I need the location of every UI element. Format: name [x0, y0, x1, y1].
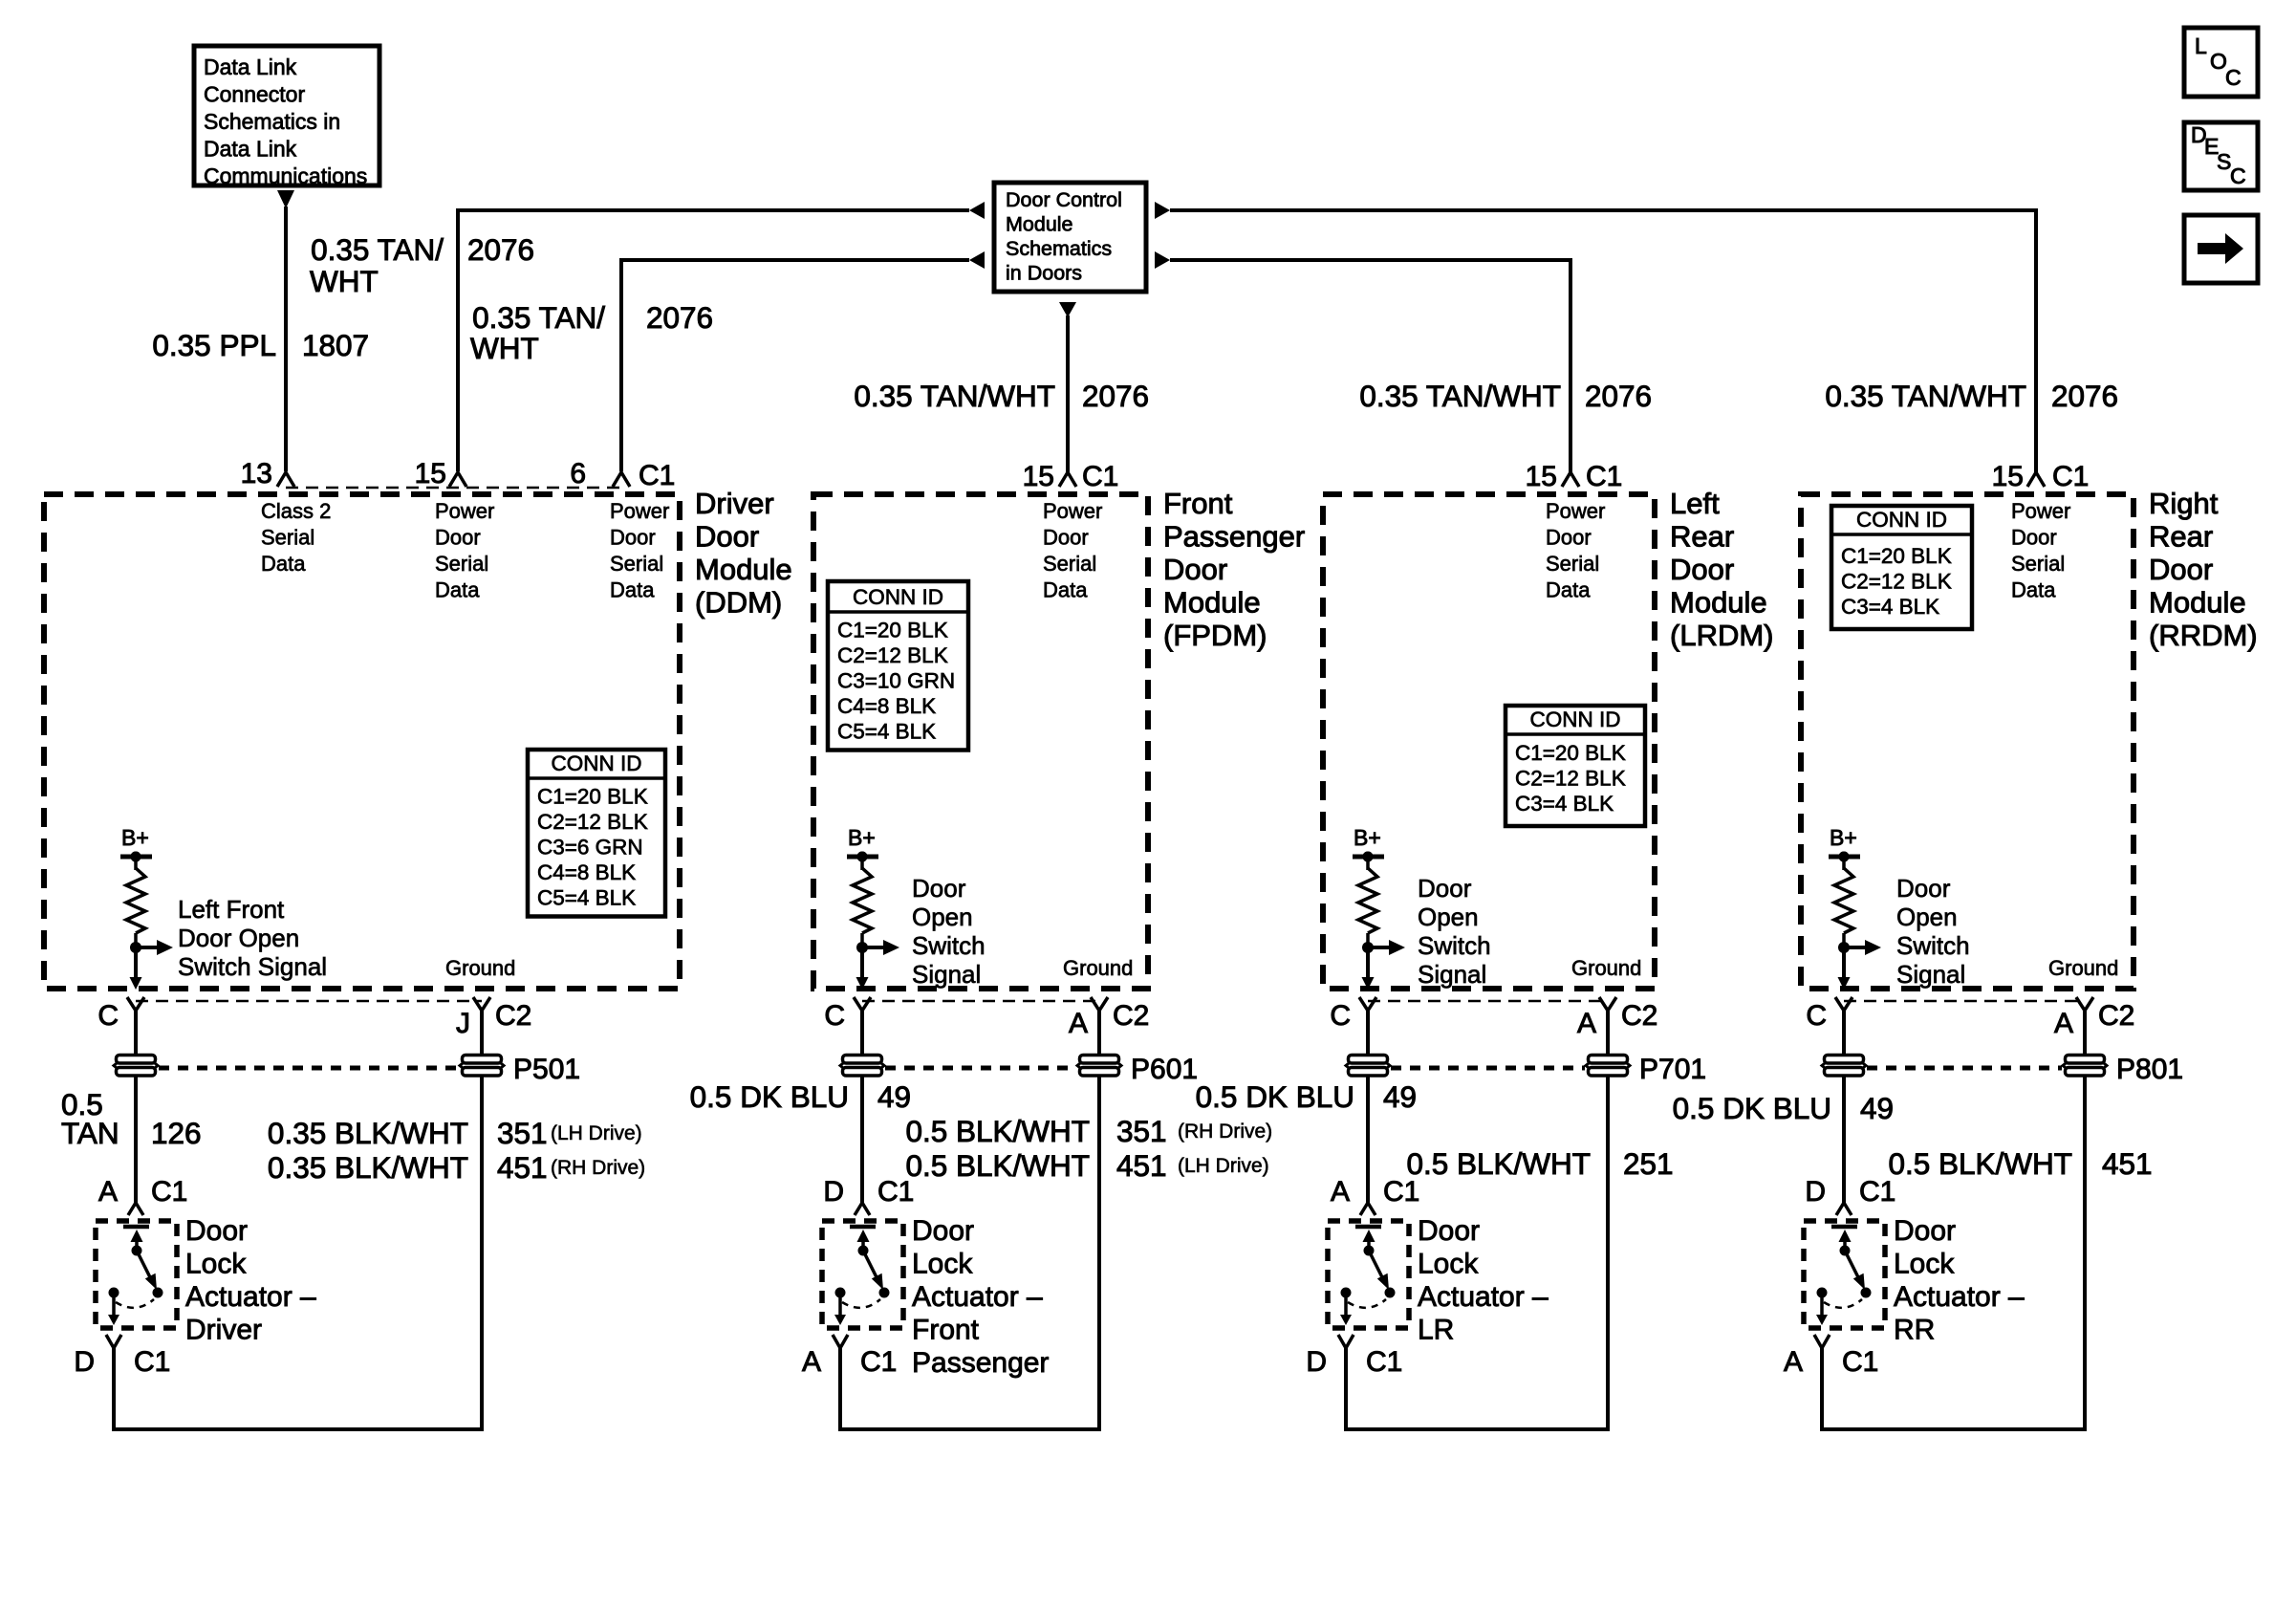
svg-text:Signal: Signal — [1896, 960, 1965, 989]
svg-text:A: A — [98, 1176, 118, 1208]
svg-text:Module: Module — [1163, 586, 1261, 620]
svg-text:WHT: WHT — [470, 331, 539, 365]
svg-text:C1: C1 — [1082, 461, 1118, 492]
svg-text:A: A — [802, 1346, 821, 1378]
svg-text:C5=4 BLK: C5=4 BLK — [537, 886, 636, 910]
connector P801 dashed line — [1867, 1066, 2062, 1071]
svg-text:Module: Module — [1670, 586, 1767, 620]
pin 15 C1 of FPDM — [1023, 461, 1119, 492]
svg-text:0.5 DK BLU: 0.5 DK BLU — [1196, 1079, 1354, 1114]
svg-text:Door: Door — [695, 520, 759, 554]
connector C1 dashed line across DDM top pins — [286, 487, 621, 490]
label P501 — [513, 1054, 580, 1085]
svg-text:C5=4 BLK: C5=4 BLK — [837, 720, 936, 744]
svg-text:Module: Module — [695, 553, 792, 586]
arrow out of DCM box right lower — [1155, 251, 1170, 269]
pin C C2 of DDM (door open switch signal) — [97, 997, 144, 1032]
svg-text:Ground: Ground — [1063, 956, 1133, 980]
power node B+ in DDM — [120, 825, 152, 862]
svg-text:Serial: Serial — [610, 552, 663, 576]
svg-text:0.5 BLK/WHT: 0.5 BLK/WHT — [1406, 1146, 1591, 1181]
svg-text:B+: B+ — [1354, 825, 1381, 850]
svg-text:0.5 DK BLU: 0.5 DK BLU — [690, 1079, 849, 1114]
svg-text:C: C — [97, 1000, 119, 1032]
wire serial data DCM box to FPDM pin 15 — [1066, 316, 1070, 472]
svg-text:49: 49 — [1860, 1091, 1894, 1125]
module RRDM dashed outline — [1801, 494, 2134, 989]
svg-text:Switch Signal: Switch Signal — [178, 952, 327, 981]
svg-text:Lock: Lock — [912, 1249, 973, 1280]
label 0.5 BLK/WHT 251 (LRDM ground) — [1406, 1146, 1673, 1181]
CONN ID table LRDM — [1505, 706, 1645, 826]
svg-text:C3=4 BLK: C3=4 BLK — [1515, 792, 1614, 816]
svg-text:(RH Drive): (RH Drive) — [551, 1157, 645, 1179]
node door open switch signal junction in DDM — [130, 940, 174, 990]
grommet P801 left — [1822, 1056, 1866, 1077]
svg-text:C2: C2 — [495, 1000, 531, 1032]
svg-text:Serial: Serial — [2011, 552, 2065, 576]
svg-text:J: J — [456, 1008, 470, 1039]
wire LRDM ground pin to actuator return — [1346, 1011, 1608, 1429]
svg-text:Serial: Serial — [1043, 552, 1096, 576]
door lock actuator switch RRDM — [1804, 1221, 1885, 1328]
label 0.5 DK BLU 49 (RRDM lock wire) — [1673, 1091, 1894, 1125]
svg-text:Connector: Connector — [204, 82, 305, 107]
connector P501 dashed line — [159, 1066, 459, 1071]
note box: Door Control Module Schematics in Doors — [994, 183, 1146, 292]
svg-text:351: 351 — [1116, 1114, 1167, 1148]
svg-text:C2=12 BLK: C2=12 BLK — [537, 810, 648, 834]
door lock actuator switch LRDM — [1328, 1221, 1409, 1328]
svg-text:Data: Data — [1043, 578, 1088, 602]
svg-text:A: A — [1331, 1176, 1350, 1208]
svg-text:Schematics: Schematics — [1006, 237, 1112, 260]
label 0.35 TAN/WHT 2076 at DDM pin 15 — [310, 232, 534, 298]
svg-text:0.35 BLK/WHT: 0.35 BLK/WHT — [268, 1116, 468, 1150]
connector P601 dashed line — [885, 1066, 1076, 1071]
svg-text:Data: Data — [261, 552, 306, 576]
arrow into DCM box left upper — [969, 202, 985, 219]
svg-text:TAN: TAN — [61, 1116, 119, 1150]
CONN ID table RRDM — [1831, 506, 1972, 629]
svg-text:Left: Left — [1670, 487, 1720, 520]
svg-text:126: 126 — [151, 1116, 202, 1150]
label module name DDM — [695, 487, 792, 620]
svg-text:451: 451 — [1116, 1148, 1167, 1183]
wire FPDM ground pin to actuator return — [840, 1011, 1099, 1429]
label 0.35 TAN/WHT 2076 at FPDM pin 15 — [854, 379, 1149, 413]
wire LRDM pin C to door lock actuator — [1366, 1011, 1370, 1203]
module DDM dashed outline — [44, 494, 680, 989]
svg-text:C1=20 BLK: C1=20 BLK — [1515, 741, 1626, 765]
wire serial data DDM pin 15 to DCM box — [458, 210, 969, 471]
svg-text:0.35 PPL: 0.35 PPL — [152, 328, 276, 362]
svg-text:0.35 TAN/WHT: 0.35 TAN/WHT — [1825, 379, 2026, 413]
svg-text:Open: Open — [912, 903, 973, 931]
label 0.35 PPL 1807 — [152, 328, 369, 362]
connector C2 dashed line below RRDM — [1844, 1000, 2085, 1003]
svg-text:Door: Door — [912, 874, 966, 903]
svg-text:Data: Data — [610, 578, 655, 602]
power node B+ in FPDM — [847, 825, 878, 862]
svg-text:C2=12 BLK: C2=12 BLK — [1515, 767, 1626, 791]
label 0.35 TAN/WHT 2076 at LRDM pin 15 — [1359, 379, 1652, 413]
legend icon LOC — [2184, 28, 2258, 97]
svg-text:Door: Door — [2149, 553, 2213, 586]
legend icon forward arrow — [2184, 215, 2258, 283]
svg-text:Door Open: Door Open — [178, 924, 299, 952]
svg-text:49: 49 — [877, 1079, 911, 1114]
svg-text:C2: C2 — [1621, 1000, 1657, 1032]
svg-text:Front: Front — [1163, 487, 1233, 520]
svg-text:C: C — [2230, 163, 2246, 188]
pin A C2 of LRDM (ground) — [1577, 997, 1657, 1039]
svg-text:CONN ID: CONN ID — [853, 585, 943, 609]
pin D C1 of door lock actuator RRDM — [1805, 1176, 1895, 1215]
svg-text:D: D — [823, 1176, 844, 1208]
pin 15 C1 of RRDM — [1992, 461, 2090, 492]
svg-text:C1: C1 — [134, 1346, 170, 1378]
svg-text:C2: C2 — [1113, 1000, 1149, 1032]
legend icon DESC — [2184, 122, 2258, 190]
svg-text:(RH Drive): (RH Drive) — [1178, 1121, 1272, 1143]
svg-text:Serial: Serial — [261, 526, 314, 550]
svg-text:0.5 DK BLU: 0.5 DK BLU — [1673, 1091, 1831, 1125]
svg-text:0.35 TAN/: 0.35 TAN/ — [472, 300, 605, 335]
svg-text:13: 13 — [241, 458, 272, 490]
svg-text:B+: B+ — [121, 825, 149, 850]
module FPDM dashed outline — [813, 494, 1148, 989]
svg-text:P801: P801 — [2116, 1054, 2183, 1085]
svg-text:15: 15 — [1023, 461, 1054, 492]
svg-text:(LH Drive): (LH Drive) — [1178, 1155, 1269, 1177]
svg-text:B+: B+ — [1830, 825, 1857, 850]
label 0.35 BLK/WHT 451 RH Drive (DDM ground) — [268, 1150, 645, 1185]
svg-text:Door: Door — [185, 1215, 248, 1247]
svg-text:Power: Power — [435, 499, 494, 523]
svg-text:C3=6 GRN: C3=6 GRN — [537, 836, 643, 860]
grommet P601 left — [840, 1056, 884, 1077]
svg-text:Actuator –: Actuator – — [185, 1281, 316, 1313]
svg-text:CONN ID: CONN ID — [552, 751, 642, 775]
svg-text:Passenger: Passenger — [1163, 520, 1305, 554]
svg-text:CONN ID: CONN ID — [1530, 708, 1621, 731]
svg-text:P601: P601 — [1131, 1054, 1198, 1085]
svg-text:C1=20 BLK: C1=20 BLK — [1841, 544, 1952, 568]
svg-text:Communications: Communications — [204, 163, 367, 188]
svg-text:LR: LR — [1418, 1315, 1454, 1346]
net label Power Door Serial Data at DDM pin 6 — [610, 499, 669, 602]
svg-text:Ground: Ground — [2048, 956, 2118, 980]
connector C2 dashed line below DDM — [136, 1000, 482, 1003]
wire serial data DCM box to LRDM pin 15 — [1170, 260, 1570, 472]
label Ground in FPDM — [1063, 956, 1133, 980]
pin 13 of DDM (Class 2 Serial Data) — [241, 458, 294, 490]
svg-text:Serial: Serial — [435, 552, 488, 576]
svg-text:Lock: Lock — [185, 1249, 247, 1280]
power node B+ in LRDM — [1353, 825, 1384, 862]
svg-text:0.35 TAN/: 0.35 TAN/ — [311, 232, 444, 267]
svg-text:Switch: Switch — [1896, 931, 1970, 960]
svg-text:C1=20 BLK: C1=20 BLK — [537, 785, 648, 809]
resistor door open switch pull-up in RRDM — [1829, 852, 1860, 948]
svg-text:Data: Data — [1546, 578, 1591, 602]
label P801 — [2116, 1054, 2183, 1085]
door lock actuator switch DDM — [96, 1221, 177, 1328]
svg-text:C1: C1 — [1586, 461, 1622, 492]
svg-text:C: C — [2225, 65, 2242, 90]
svg-text:Schematics in: Schematics in — [204, 109, 340, 134]
svg-text:Power: Power — [1546, 499, 1605, 523]
node door open switch signal junction in LRDM — [1362, 940, 1406, 990]
wire serial data DDM pin 6 to DCM box — [621, 260, 969, 471]
net label Class 2 Serial Data — [261, 499, 331, 576]
pin A C1 of door lock actuator FPDM — [802, 1335, 897, 1378]
connector P701 dashed line — [1391, 1066, 1585, 1071]
resistor door open switch pull-up in DDM — [120, 852, 152, 948]
label door open switch signal in FPDM — [912, 874, 986, 989]
svg-text:A: A — [1784, 1346, 1803, 1378]
net label Power Door Serial Data at RRDM pin 15 — [2011, 499, 2070, 602]
net label Power Door Serial Data at DDM pin 15 — [435, 499, 494, 602]
svg-text:Front: Front — [912, 1315, 980, 1346]
svg-text:Rear: Rear — [1670, 520, 1734, 554]
svg-text:Module: Module — [1006, 213, 1073, 236]
label module name LRDM — [1670, 487, 1774, 652]
label door lock actuator LRDM — [1418, 1215, 1549, 1346]
connector C2 dashed line below LRDM — [1368, 1000, 1608, 1003]
label door open switch signal in RRDM — [1896, 874, 1970, 989]
svg-text:(RRDM): (RRDM) — [2149, 619, 2258, 652]
svg-text:Actuator –: Actuator – — [1418, 1281, 1549, 1313]
svg-text:Door: Door — [1670, 553, 1734, 586]
pin 6 C1 of DDM (Power Door Serial Data) — [570, 458, 675, 491]
svg-text:49: 49 — [1383, 1079, 1417, 1114]
svg-text:C1: C1 — [1842, 1346, 1878, 1378]
svg-text:P501: P501 — [513, 1054, 580, 1085]
svg-text:Class 2: Class 2 — [261, 499, 331, 523]
svg-text:C: C — [1330, 1000, 1351, 1032]
pin J C2 of DDM (ground) — [456, 997, 531, 1039]
svg-text:251: 251 — [1623, 1146, 1674, 1181]
wire serial data DCM box to RRDM pin 15 — [1170, 210, 2036, 473]
svg-text:Door: Door — [1163, 553, 1227, 586]
svg-text:0.5 BLK/WHT: 0.5 BLK/WHT — [905, 1114, 1090, 1148]
svg-text:A: A — [1577, 1008, 1596, 1039]
pin A C2 of FPDM (ground) — [1069, 997, 1149, 1039]
svg-text:L: L — [2195, 33, 2207, 58]
svg-text:2076: 2076 — [1585, 379, 1652, 413]
label 0.35 TAN/WHT 2076 at DDM pin 6 — [470, 300, 713, 365]
label 0.35 BLK/WHT 351 LH Drive (DDM ground) — [268, 1116, 642, 1150]
svg-text:D: D — [74, 1346, 95, 1378]
svg-text:(LRDM): (LRDM) — [1670, 619, 1774, 652]
svg-text:2076: 2076 — [467, 232, 534, 267]
pin D C1 of door lock actuator LRDM — [1306, 1335, 1402, 1378]
svg-text:D: D — [1306, 1346, 1327, 1378]
svg-text:Driver: Driver — [695, 487, 774, 520]
svg-text:Right: Right — [2149, 487, 2219, 520]
svg-text:15: 15 — [415, 458, 446, 490]
svg-text:2076: 2076 — [2051, 379, 2118, 413]
grommet P501 right — [460, 1056, 504, 1077]
svg-text:6: 6 — [570, 458, 586, 490]
svg-text:(DDM): (DDM) — [695, 586, 782, 620]
arrow out of Data Link note box — [277, 190, 294, 208]
svg-text:C1: C1 — [639, 460, 675, 491]
svg-text:C2=12 BLK: C2=12 BLK — [1841, 570, 1952, 594]
label 0.5 BLK/WHT 451 LH Drive (FPDM ground) — [905, 1148, 1268, 1183]
svg-text:Data Link: Data Link — [204, 137, 297, 162]
svg-text:C1: C1 — [2052, 461, 2089, 492]
svg-text:A: A — [2054, 1008, 2073, 1039]
net label Power Door Serial Data at LRDM pin 15 — [1546, 499, 1605, 602]
svg-text:in Doors: in Doors — [1006, 262, 1082, 285]
arrow out of DCM box bottom — [1059, 302, 1076, 317]
svg-text:Left Front: Left Front — [178, 895, 285, 924]
svg-text:(LH Drive): (LH Drive) — [551, 1122, 642, 1144]
svg-text:Rear: Rear — [2149, 520, 2213, 554]
pin C C2 of LRDM (door open switch signal) — [1330, 997, 1376, 1032]
svg-text:15: 15 — [1992, 461, 2024, 492]
svg-text:Open: Open — [1418, 903, 1479, 931]
svg-text:451: 451 — [2102, 1146, 2153, 1181]
pin A C1 of door lock actuator DDM — [98, 1176, 187, 1215]
svg-text:Door: Door — [2011, 526, 2057, 550]
label Ground in RRDM — [2048, 956, 2118, 980]
svg-text:Lock: Lock — [1418, 1249, 1479, 1280]
svg-text:451: 451 — [497, 1150, 548, 1185]
svg-text:C1: C1 — [860, 1346, 897, 1378]
svg-text:Door: Door — [1418, 1215, 1480, 1247]
svg-text:Open: Open — [1896, 903, 1958, 931]
svg-text:Actuator –: Actuator – — [1894, 1281, 2025, 1313]
svg-text:Door: Door — [435, 526, 481, 550]
svg-text:0.35 TAN/WHT: 0.35 TAN/WHT — [1359, 379, 1561, 413]
svg-text:Door: Door — [912, 1215, 974, 1247]
svg-text:Door: Door — [1043, 526, 1089, 550]
label door lock actuator FPDM — [912, 1215, 1049, 1379]
svg-text:Door: Door — [1418, 874, 1472, 903]
power node B+ in RRDM — [1829, 825, 1860, 862]
node door open switch signal junction in FPDM — [856, 940, 900, 990]
svg-text:351: 351 — [497, 1116, 548, 1150]
CONN ID table DDM — [528, 750, 665, 917]
svg-text:C1=20 BLK: C1=20 BLK — [837, 619, 948, 642]
svg-text:Switch: Switch — [912, 931, 986, 960]
node door open switch signal junction in RRDM — [1838, 940, 1882, 990]
svg-text:(FPDM): (FPDM) — [1163, 619, 1267, 652]
connector C2 dashed line below FPDM — [862, 1000, 1099, 1003]
svg-text:C2=12 BLK: C2=12 BLK — [837, 643, 948, 667]
label 0.35 TAN/WHT 2076 at RRDM pin 15 — [1825, 379, 2118, 413]
svg-text:A: A — [1069, 1008, 1088, 1039]
pin A C2 of RRDM (ground) — [2054, 997, 2134, 1039]
pin D C1 of door lock actuator FPDM — [823, 1176, 914, 1215]
svg-text:Serial: Serial — [1546, 552, 1599, 576]
label door open switch signal in LRDM — [1418, 874, 1491, 989]
label P701 — [1639, 1054, 1706, 1085]
label door lock actuator DDM — [185, 1215, 316, 1346]
svg-text:Signal: Signal — [912, 960, 981, 989]
svg-text:C1: C1 — [1366, 1346, 1402, 1378]
svg-text:0.35 BLK/WHT: 0.35 BLK/WHT — [268, 1150, 468, 1185]
svg-text:2076: 2076 — [1082, 379, 1149, 413]
pin C C2 of FPDM (door open switch signal) — [824, 997, 871, 1032]
resistor door open switch pull-up in LRDM — [1353, 852, 1384, 948]
label P601 — [1131, 1054, 1198, 1085]
svg-text:C1: C1 — [151, 1176, 187, 1208]
svg-text:CONN ID: CONN ID — [1856, 508, 1947, 532]
svg-text:P701: P701 — [1639, 1054, 1706, 1085]
svg-text:2076: 2076 — [646, 300, 713, 335]
pin 15 C1 of LRDM — [1526, 461, 1623, 492]
svg-text:Door: Door — [1546, 526, 1592, 550]
svg-text:1807: 1807 — [302, 328, 369, 362]
grommet P501 left — [114, 1056, 158, 1077]
pin C C2 of RRDM (door open switch signal) — [1806, 997, 1852, 1032]
svg-text:C3=10 GRN: C3=10 GRN — [837, 669, 955, 693]
svg-text:Data: Data — [435, 578, 480, 602]
svg-text:Power: Power — [610, 499, 669, 523]
svg-text:Passenger: Passenger — [912, 1347, 1049, 1379]
label 0.5 BLK/WHT 451 (RRDM ground) — [1888, 1146, 2152, 1181]
wire RRDM pin C to door lock actuator — [1842, 1011, 1846, 1203]
grommet P801 right — [2063, 1056, 2107, 1077]
wire RRDM ground pin to actuator return — [1822, 1011, 2085, 1429]
svg-text:Data: Data — [2011, 578, 2056, 602]
pin 15 of DDM (Power Door Serial Data) — [415, 458, 466, 490]
pin D C1 of door lock actuator DDM — [74, 1335, 170, 1378]
svg-text:Door: Door — [610, 526, 656, 550]
arrow into DCM box left lower — [969, 251, 985, 269]
svg-text:Lock: Lock — [1894, 1249, 1955, 1280]
label 0.5 BLK/WHT 351 RH Drive (FPDM ground) — [905, 1114, 1272, 1148]
label door lock actuator RRDM — [1894, 1215, 2025, 1346]
svg-text:0.35 TAN/WHT: 0.35 TAN/WHT — [854, 379, 1055, 413]
svg-text:RR: RR — [1894, 1315, 1935, 1346]
grommet P701 right — [1586, 1056, 1630, 1077]
CONN ID table FPDM — [828, 581, 968, 751]
svg-text:C4=8 BLK: C4=8 BLK — [837, 694, 936, 718]
svg-text:15: 15 — [1526, 461, 1557, 492]
label 0.5 TAN 126 (DDM lock wire) — [61, 1087, 202, 1150]
pin A C1 of door lock actuator LRDM — [1331, 1176, 1419, 1215]
svg-text:C: C — [824, 1000, 845, 1032]
wire DDM ground pin to actuator return — [114, 1011, 482, 1429]
svg-text:Actuator –: Actuator – — [912, 1281, 1043, 1313]
module LRDM dashed outline — [1323, 494, 1655, 989]
svg-text:Power: Power — [2011, 499, 2070, 523]
resistor door open switch pull-up in FPDM — [847, 852, 878, 948]
svg-text:0.5 BLK/WHT: 0.5 BLK/WHT — [905, 1148, 1090, 1183]
label 0.5 DK BLU 49 (LRDM lock wire) — [1196, 1079, 1417, 1114]
pin A C1 of door lock actuator RRDM — [1784, 1335, 1878, 1378]
svg-text:Door: Door — [1894, 1215, 1956, 1247]
grommet P701 left — [1346, 1056, 1390, 1077]
note box: Data Link Connector Schematics in Data Link Communications — [194, 46, 379, 188]
svg-text:Power: Power — [1043, 499, 1102, 523]
svg-text:D: D — [1805, 1176, 1826, 1208]
svg-text:Ground: Ground — [445, 956, 515, 980]
label module name RRDM — [2149, 487, 2258, 652]
svg-text:Door: Door — [1896, 874, 1951, 903]
svg-text:WHT: WHT — [310, 264, 379, 298]
svg-text:C: C — [1806, 1000, 1827, 1032]
wire FPDM pin C to door lock actuator — [860, 1011, 864, 1203]
svg-text:Switch: Switch — [1418, 931, 1491, 960]
svg-text:B+: B+ — [848, 825, 876, 850]
